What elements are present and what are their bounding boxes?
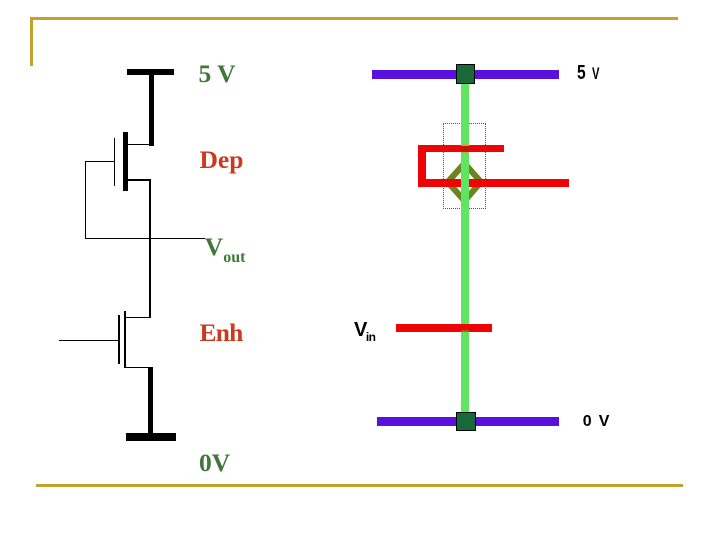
ground bar	[126, 433, 176, 440]
wire Vout node horizontal	[85, 238, 206, 239]
label Vout	[205, 234, 246, 266]
label Vin	[354, 320, 376, 343]
transistor Dep channel bar	[123, 132, 128, 191]
label 5 V (layout)	[577, 63, 586, 83]
label Enh	[200, 320, 243, 346]
label Dep	[200, 147, 244, 173]
wire gate feedback vertical	[85, 161, 86, 239]
wire Enh drain	[125, 317, 150, 318]
poly gate Vin bar	[396, 324, 492, 332]
poly depletion load: top bar of C	[418, 145, 504, 153]
label 0 V (layout)	[583, 414, 611, 430]
poly depletion load: left vertical of C	[418, 145, 426, 188]
wire thick VDD stub	[149, 75, 154, 146]
crossing hint khaki bottom edge	[461, 152, 469, 154]
wire Dep source	[128, 179, 150, 181]
border frame left gold stub	[30, 17, 33, 66]
buried contact diamond	[439, 156, 491, 208]
poly depletion load: bottom long bar	[418, 179, 569, 187]
wire mid vertical Dep source to Enh drain	[149, 179, 151, 317]
transistor Enh channel line	[124, 311, 126, 369]
transistor Dep gate line	[114, 138, 115, 186]
metal VDD rail (layout)	[372, 70, 559, 79]
border frame bottom gold line	[36, 484, 683, 487]
label 5 V (schematic VDD)	[199, 61, 236, 87]
wire Dep gate	[85, 161, 115, 162]
VDD rail bar (schematic)	[127, 69, 174, 75]
crossing hint khaki top edge	[461, 144, 469, 146]
crossing hint dark tint	[461, 146, 469, 152]
wire Dep drain	[128, 144, 151, 146]
border frame top gold line	[30, 17, 678, 20]
implant box (dotted)	[443, 123, 486, 209]
transistor Enh gate line	[118, 315, 119, 364]
contact GND	[456, 412, 476, 432]
contact VDD	[456, 64, 475, 85]
wire Enh source	[125, 367, 150, 369]
Vin crossing notch	[461, 330, 469, 332]
wire Enh gate lead	[59, 340, 119, 341]
wire thick GND stub	[148, 367, 153, 434]
label 0V (schematic GND)	[199, 450, 230, 476]
metal GND rail (layout)	[377, 417, 559, 426]
diffusion line (green)	[461, 84, 468, 412]
